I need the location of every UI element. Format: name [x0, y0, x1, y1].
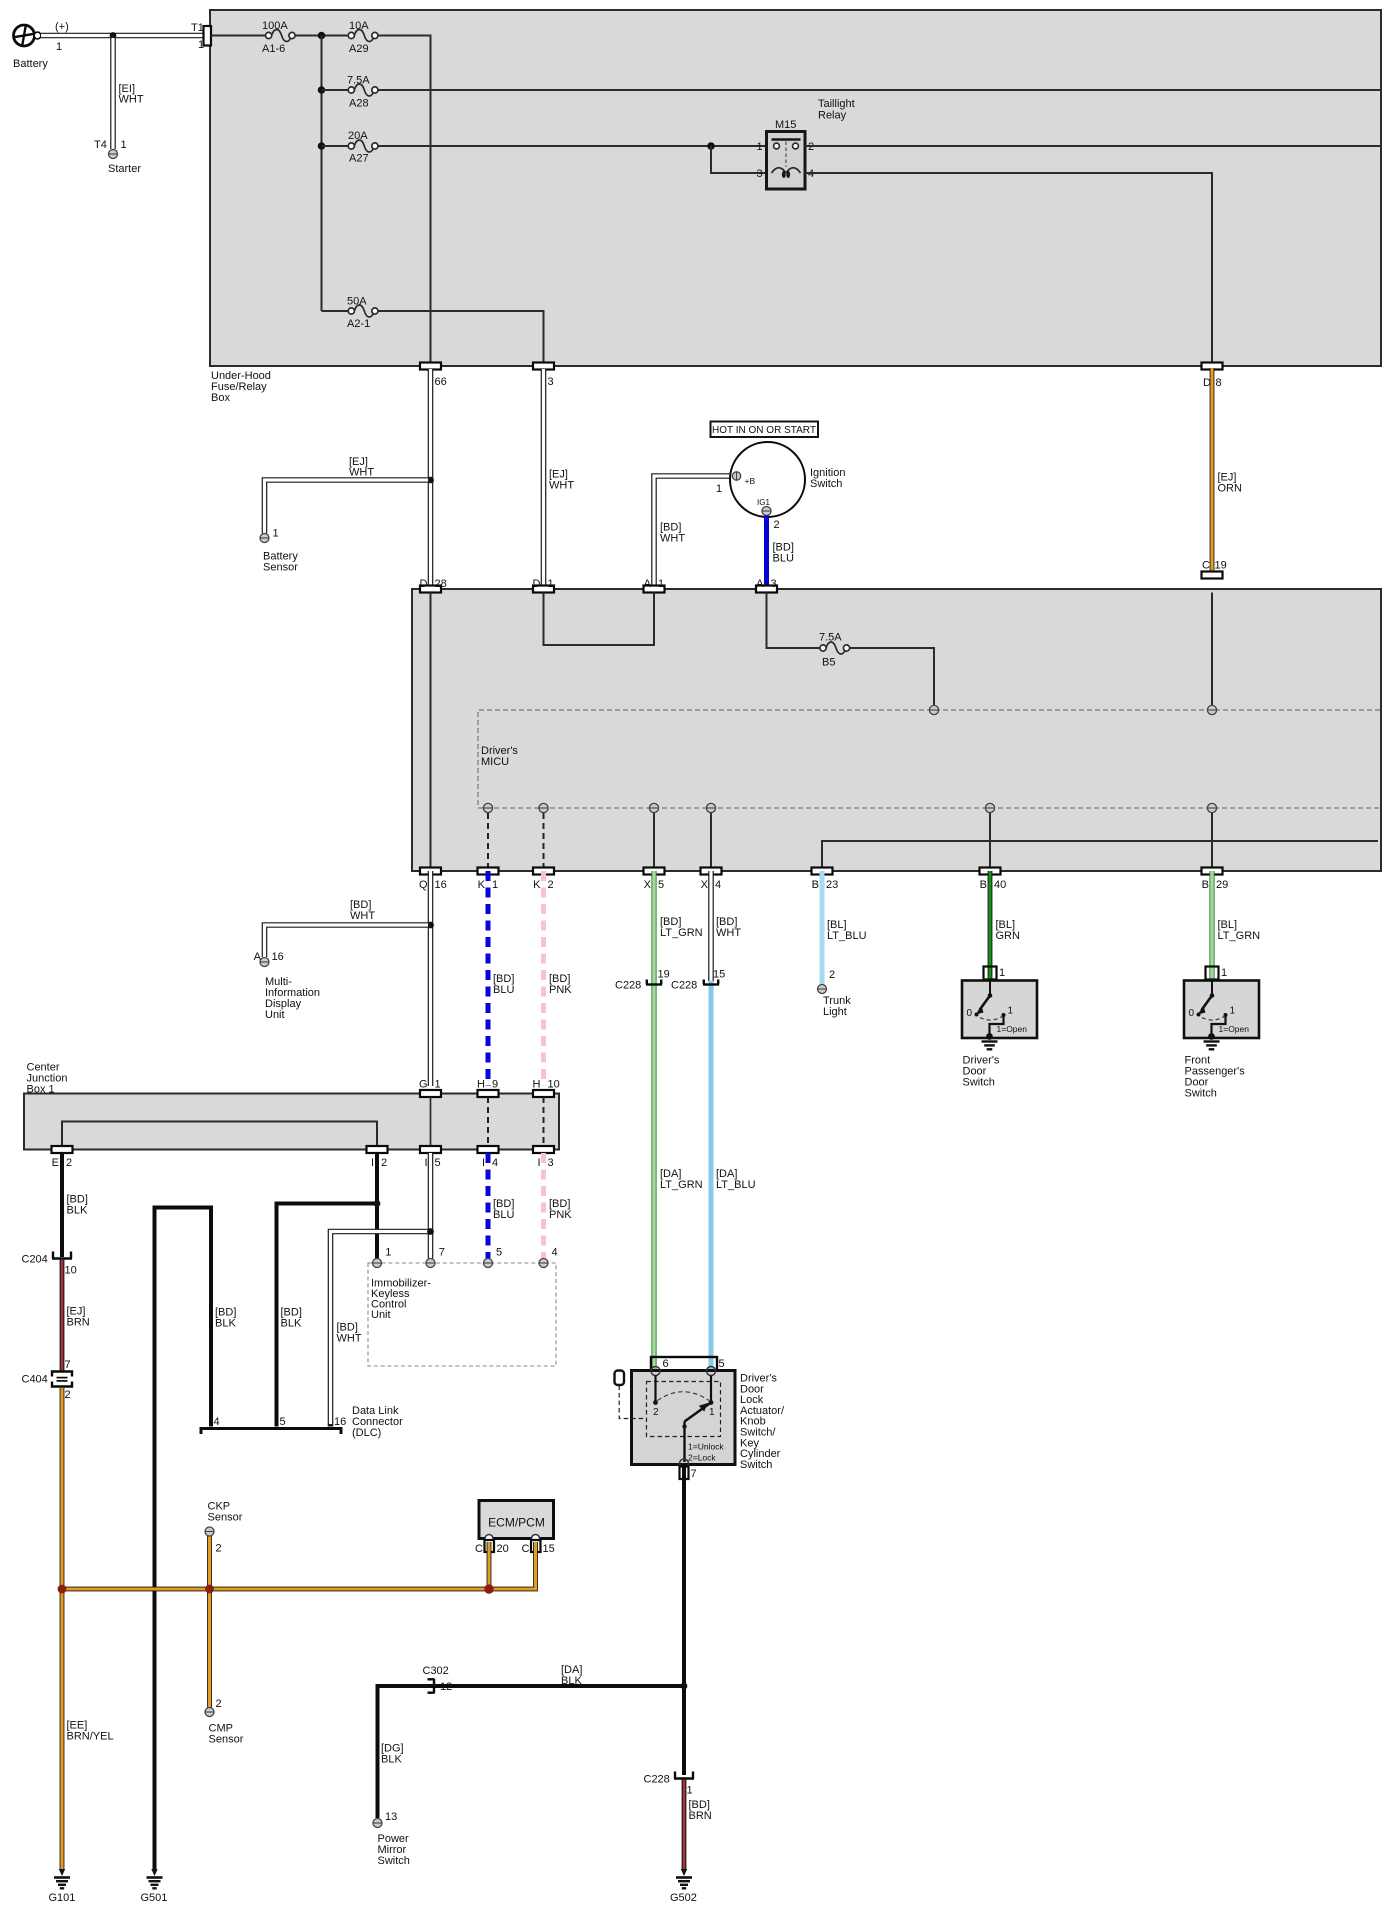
svg-text:H: H	[533, 1079, 541, 1091]
wire terminal to B-29	[1211, 813, 1213, 868]
svg-text:4: 4	[715, 879, 721, 891]
door lock actuator label	[740, 1373, 785, 1471]
connector K-1	[478, 868, 499, 892]
fuse 20A A27	[322, 130, 379, 165]
svg-text:3: 3	[771, 578, 777, 590]
fuse 50A A2-1	[322, 296, 379, 331]
MICU inner dashed boundary	[478, 710, 1380, 808]
wire B-40 to driver's door switch [BL] GRN	[990, 871, 1020, 981]
svg-text:7: 7	[65, 1359, 71, 1371]
actuator bottom pin I-7	[680, 1459, 697, 1480]
key cylinder icon	[615, 1371, 647, 1419]
svg-text:5: 5	[496, 1247, 502, 1259]
connector H-10	[533, 1079, 560, 1098]
svg-text:BLU: BLU	[493, 984, 514, 996]
wire C-19 into MICU	[1211, 593, 1213, 706]
node orange junction at G101 wire	[58, 1585, 67, 1594]
wire power mirror switch to junction [DG] BLK	[378, 1664, 685, 1818]
svg-text:A29: A29	[349, 43, 369, 55]
svg-text:I: I	[537, 1157, 540, 1169]
svg-text:4: 4	[552, 1247, 558, 1259]
wire X-5 to door lock actuator [BD]/[DA] LT_GRN	[654, 871, 703, 1364]
svg-text:C228: C228	[615, 980, 641, 992]
front passenger's door switch	[1184, 981, 1259, 1040]
wire T1 to fuses	[211, 35, 266, 37]
svg-text:23: 23	[826, 879, 838, 891]
svg-text:WHT: WHT	[549, 480, 574, 492]
svg-text:Battery: Battery	[13, 58, 48, 70]
svg-text:1: 1	[687, 1785, 693, 1797]
svg-text:16: 16	[435, 879, 447, 891]
svg-text:Unit: Unit	[371, 1309, 391, 1321]
svg-text:A2-1: A2-1	[347, 318, 370, 330]
fuse 7.5A A28	[322, 75, 379, 110]
svg-text:Q: Q	[419, 879, 428, 891]
svg-text:5: 5	[719, 1358, 725, 1370]
svg-text:D: D	[533, 578, 541, 590]
svg-text:C: C	[1202, 560, 1210, 572]
svg-text:WHT: WHT	[350, 910, 375, 922]
MICU terminal X-5	[649, 803, 658, 812]
svg-text:C204: C204	[22, 1254, 48, 1266]
wire actuator to C228-1 [DA] BLK	[681, 1464, 688, 1775]
wire Q-16 to G-1 [BD] WHT	[350, 871, 431, 1086]
svg-text:T4: T4	[94, 139, 107, 151]
svg-text:LT_BLU: LT_BLU	[716, 1179, 756, 1191]
connector C404 pins 7/2	[22, 1359, 73, 1401]
wire 3 to D-1 [EJ] WHT	[544, 369, 575, 586]
svg-text:BLK: BLK	[561, 1675, 582, 1687]
wire 20A to relay pin 1	[378, 145, 766, 147]
svg-text:I: I	[482, 1157, 485, 1169]
svg-text:LT_GRN: LT_GRN	[1218, 930, 1261, 942]
connector 66	[420, 363, 447, 389]
svg-text:H: H	[477, 1079, 485, 1091]
ground G101	[49, 1878, 76, 1905]
svg-text:1: 1	[56, 41, 62, 53]
wire E-2 to I-2 inside CJB	[62, 1122, 377, 1147]
svg-text:7: 7	[439, 1247, 445, 1259]
MICU terminal K-1	[483, 803, 492, 812]
wire I-2 to immobilizer pin 1 and DLC-5	[277, 1153, 381, 1427]
svg-text:A: A	[756, 578, 764, 590]
starter terminal T4-1	[94, 139, 141, 175]
wire junction to multi-information display	[265, 925, 431, 957]
svg-text:I: I	[371, 1157, 374, 1169]
ECM/PCM	[479, 1501, 554, 1543]
wire 50A to connector 3	[378, 311, 544, 366]
connector T1-1	[191, 22, 211, 51]
svg-text:19: 19	[658, 969, 670, 981]
wire D-28 to Q-16 inside MICU	[430, 593, 432, 868]
svg-text:1: 1	[757, 141, 763, 153]
driver's door switch ground	[963, 1042, 1000, 1089]
wire G-1 to I-5 inside CJB	[430, 1097, 432, 1146]
svg-text:7.5A: 7.5A	[819, 632, 842, 644]
connector H-9	[477, 1079, 498, 1098]
svg-text:B: B	[1202, 879, 1209, 891]
wire terminal to X-5	[653, 813, 655, 868]
node 7.5A junction	[318, 86, 326, 94]
svg-text:T1: T1	[191, 22, 204, 34]
svg-text:5: 5	[280, 1416, 286, 1428]
fuse 7.5A B5	[819, 632, 850, 669]
wire C204 to C404 [EJ] BRN	[62, 1260, 90, 1372]
svg-text:2: 2	[653, 1407, 659, 1418]
svg-text:G502: G502	[670, 1892, 697, 1904]
svg-text:Switch: Switch	[378, 1855, 410, 1867]
wire I-4 to immobilizer pin 5 [BD] BLU dashed	[488, 1153, 514, 1259]
svg-text:1: 1	[385, 1247, 391, 1259]
svg-text:1: 1	[1221, 967, 1227, 979]
svg-text:C: C	[522, 1543, 530, 1555]
wire DLC-4 to G501 (thick black U)	[155, 1208, 212, 1870]
svg-text:1: 1	[709, 1407, 715, 1418]
svg-text:A1-6: A1-6	[262, 43, 285, 55]
connector Q-16	[419, 868, 447, 892]
svg-text:1: 1	[548, 578, 554, 590]
connector 3	[533, 363, 554, 389]
connector X-5	[644, 868, 665, 892]
svg-text:X: X	[701, 879, 709, 891]
svg-text:3: 3	[757, 168, 763, 180]
passenger door switch connector 1	[1206, 967, 1228, 980]
ground G502	[670, 1878, 697, 1905]
connector K-2	[533, 868, 554, 892]
driver's door switch	[962, 981, 1037, 1040]
wire E-2 to C204 [BD] BLK	[62, 1153, 88, 1257]
wire terminal to K-2 (dashed)	[543, 813, 545, 868]
connector C204-10	[22, 1252, 77, 1277]
wire bus vertical	[321, 36, 323, 312]
svg-text:BLK: BLK	[67, 1205, 88, 1217]
connector I-5	[420, 1146, 441, 1169]
svg-text:ORN: ORN	[1218, 483, 1243, 495]
svg-text:WHT: WHT	[349, 467, 374, 479]
connector C-19	[1202, 560, 1227, 579]
Center Junction Box 1	[24, 1062, 559, 1150]
power mirror switch terminal 13	[373, 1811, 410, 1867]
svg-text:LT_BLU: LT_BLU	[827, 930, 867, 942]
svg-text:3: 3	[548, 1157, 554, 1169]
MICU terminal X-4	[706, 803, 715, 812]
svg-text:8: 8	[1216, 377, 1222, 389]
svg-text:1: 1	[121, 139, 127, 151]
svg-text:9: 9	[492, 1079, 498, 1091]
svg-text:Sensor: Sensor	[209, 1734, 244, 1746]
svg-text:BLK: BLK	[281, 1318, 302, 1330]
fuse 100A A1-6	[262, 20, 295, 55]
CKP sensor terminal 2	[205, 1501, 243, 1555]
wire A-3 to fuse B5	[767, 593, 821, 649]
svg-text:20A: 20A	[348, 130, 368, 142]
svg-text:GRN: GRN	[996, 930, 1021, 942]
svg-text:28: 28	[435, 578, 447, 590]
node MID branch junction	[427, 922, 434, 929]
wire X-4 to C228 [BD] WHT	[711, 871, 741, 981]
svg-text:C228: C228	[644, 1774, 670, 1786]
svg-text:LT_GRN: LT_GRN	[660, 1179, 703, 1191]
svg-text:Unit: Unit	[265, 1009, 285, 1021]
connector I-3	[533, 1146, 554, 1169]
connector G-1	[419, 1079, 441, 1098]
svg-text:1=Unlock: 1=Unlock	[688, 1442, 724, 1452]
connector D-1	[533, 578, 554, 593]
svg-text:0: 0	[967, 1008, 973, 1019]
wire relay pin 4 to D-8	[805, 173, 1212, 366]
wire H-10 to I-3 inside CJB (dashed)	[543, 1097, 545, 1146]
wire relay pin 2 to right edge	[805, 145, 1380, 147]
connector C228-19	[615, 969, 670, 992]
svg-text:13: 13	[385, 1811, 397, 1823]
connector A-1	[644, 578, 665, 593]
wire junction to battery sensor	[265, 480, 431, 534]
taillight relay M15	[757, 98, 855, 189]
connector E-2	[52, 1146, 73, 1169]
svg-text:Light: Light	[823, 1006, 847, 1018]
svg-text:I: I	[424, 1157, 427, 1169]
svg-text:1: 1	[1230, 1006, 1236, 1017]
svg-text:2: 2	[774, 519, 780, 531]
svg-text:MICU: MICU	[481, 756, 509, 768]
svg-text:BLK: BLK	[381, 1754, 402, 1766]
wire junction to relay pin 3	[711, 146, 766, 173]
svg-text:Sensor: Sensor	[263, 562, 298, 574]
wire ignition +B to A-1 [BD] WHT	[654, 476, 733, 586]
svg-text:40: 40	[994, 879, 1006, 891]
svg-text:7.5A: 7.5A	[347, 75, 370, 87]
svg-text:16: 16	[334, 1416, 346, 1428]
svg-text:20: 20	[497, 1543, 509, 1555]
driver's door lock actuator / knob switch / key cylinder switch	[632, 1367, 736, 1465]
Under-Hood Fuse/Relay Box	[210, 10, 1381, 404]
svg-text:C302: C302	[423, 1665, 449, 1677]
node battery sensor junction	[427, 477, 434, 484]
connector C228-1	[644, 1772, 695, 1797]
wire B-23 riser	[822, 841, 1378, 868]
CMP sensor terminal 2	[205, 1698, 244, 1746]
HOT IN ON OR START banner	[711, 422, 819, 438]
svg-text:B: B	[812, 879, 819, 891]
label [BD] BLK (DLC 5 wire)	[281, 1307, 302, 1330]
battery	[13, 21, 69, 70]
svg-text:50A: 50A	[347, 296, 367, 308]
wire K-1 to H-9 [BD] BLU dashed	[488, 871, 514, 1086]
svg-text:2: 2	[216, 1698, 222, 1710]
wire K-2 to H-10 [BD] PNK dashed	[544, 871, 573, 1086]
svg-text:WHT: WHT	[716, 927, 741, 939]
svg-text:1: 1	[658, 578, 664, 590]
svg-text:2: 2	[381, 1157, 387, 1169]
svg-text:Box: Box	[211, 392, 230, 404]
wire terminal to X-4	[710, 813, 712, 868]
svg-text:Relay: Relay	[818, 110, 847, 122]
fuse 10A A29	[348, 20, 378, 55]
svg-text:PNK: PNK	[549, 1209, 572, 1221]
svg-text:WHT: WHT	[337, 1333, 362, 1345]
connector B-40	[980, 868, 1007, 892]
MID terminal A-16	[254, 951, 320, 1021]
wire B-29 to passenger door switch [BL] LT_GRN	[1212, 871, 1260, 981]
svg-text:X: X	[644, 879, 652, 891]
svg-text:C228: C228	[671, 980, 697, 992]
svg-text:15: 15	[543, 1543, 555, 1555]
svg-text:(+): (+)	[55, 21, 69, 33]
MICU terminal K-2	[539, 803, 548, 812]
wire D-1 to A-1 inside MICU	[544, 593, 655, 646]
passenger door switch ground	[1185, 1042, 1246, 1100]
svg-text:4: 4	[214, 1416, 220, 1428]
MICU terminal (B5 feed)	[929, 705, 938, 714]
connector B-29	[1202, 868, 1229, 892]
svg-text:M15: M15	[775, 119, 796, 131]
svg-text:C404: C404	[22, 1374, 48, 1386]
driver's door lock actuator connector band	[651, 1356, 725, 1371]
svg-text:1: 1	[492, 879, 498, 891]
connector C228-15	[671, 969, 725, 992]
svg-text:2: 2	[829, 969, 835, 981]
svg-text:1=Open: 1=Open	[997, 1024, 1028, 1034]
svg-text:BLK: BLK	[215, 1318, 236, 1330]
svg-text:Sensor: Sensor	[208, 1512, 243, 1524]
wire battery to T1 (white double)	[41, 33, 206, 39]
svg-text:29: 29	[1216, 879, 1228, 891]
svg-text:3: 3	[548, 376, 554, 388]
ignition switch	[716, 442, 845, 531]
svg-text:2: 2	[65, 1389, 71, 1401]
svg-text:1: 1	[999, 967, 1005, 979]
svg-text:B: B	[980, 879, 987, 891]
wire C228 to door lock actuator [DA] LT_BLU	[711, 981, 756, 1364]
svg-text:ECM/PCM: ECM/PCM	[488, 1516, 545, 1530]
svg-text:66: 66	[435, 376, 447, 388]
svg-text:Starter: Starter	[108, 163, 141, 175]
svg-text:BRN/YEL: BRN/YEL	[67, 1731, 114, 1743]
wire 10A to right then down to 66	[378, 36, 431, 367]
svg-text:10: 10	[548, 1079, 560, 1091]
node orange junction at ECM C-20	[484, 1584, 494, 1594]
wire junction to starter [EI] WHT	[113, 36, 144, 150]
connector A-3	[756, 578, 777, 593]
immobilizer-keyless control unit	[368, 1247, 558, 1367]
svg-text:10: 10	[65, 1265, 77, 1277]
svg-text:A27: A27	[349, 153, 369, 165]
svg-text:E: E	[52, 1157, 59, 1169]
svg-text:6: 6	[663, 1358, 669, 1370]
wire I-5 to immobilizer pin 7 and DLC-16 [BD] WHT	[331, 1153, 434, 1427]
svg-text:2: 2	[216, 1543, 222, 1555]
svg-text:(DLC): (DLC)	[352, 1427, 381, 1439]
svg-text:Switch: Switch	[810, 478, 842, 490]
connector D-28	[420, 578, 447, 593]
svg-text:1: 1	[1008, 1006, 1014, 1017]
node relay branch junction	[707, 142, 715, 150]
svg-text:Switch: Switch	[1185, 1088, 1217, 1100]
wire terminal to B-40	[989, 813, 991, 868]
svg-text:G101: G101	[49, 1892, 76, 1904]
svg-text:100A: 100A	[262, 20, 288, 32]
svg-text:+B: +B	[745, 476, 756, 486]
svg-text:BLU: BLU	[493, 1209, 514, 1221]
svg-text:IG1: IG1	[757, 498, 770, 507]
connector I-2	[367, 1146, 388, 1169]
svg-text:5: 5	[658, 879, 664, 891]
svg-text:16: 16	[272, 951, 284, 963]
svg-text:19: 19	[1215, 560, 1227, 572]
svg-text:0: 0	[1189, 1008, 1195, 1019]
svg-text:15: 15	[713, 969, 725, 981]
MICU terminal (C-19 feed)	[1207, 705, 1216, 714]
svg-text:1=Open: 1=Open	[1219, 1024, 1250, 1034]
svg-text:2: 2	[548, 879, 554, 891]
node battery junction	[110, 32, 117, 39]
svg-text:1: 1	[198, 39, 204, 51]
svg-text:HOT IN ON OR START: HOT IN ON OR START	[712, 425, 816, 436]
wire B5 to MICU terminal	[850, 648, 935, 706]
connector D-8	[1202, 363, 1223, 390]
wire C228-1 to G502 [BD] BRN	[681, 1780, 712, 1877]
svg-text:WHT: WHT	[119, 94, 144, 106]
wire IG1 to A-3 [BD] BLU	[767, 516, 794, 587]
svg-text:5: 5	[435, 1157, 441, 1169]
svg-text:Switch: Switch	[740, 1459, 772, 1471]
svg-text:2=Lock: 2=Lock	[688, 1453, 716, 1463]
svg-text:BRN: BRN	[67, 1317, 90, 1329]
svg-text:D: D	[420, 578, 428, 590]
svg-text:2: 2	[66, 1157, 72, 1169]
svg-text:Switch: Switch	[963, 1077, 995, 1089]
svg-text:WHT: WHT	[660, 533, 685, 545]
svg-text:7: 7	[691, 1468, 697, 1480]
driver's door switch connector 1	[984, 967, 1006, 980]
ECM/PCM connectors C-20 C-15	[475, 1540, 555, 1555]
wire B-23 to trunk light [BL] LT_BLU	[822, 871, 867, 985]
svg-text:12: 12	[440, 1681, 452, 1693]
svg-text:C: C	[475, 1543, 483, 1555]
wire C404 to G101 [EE] BRN/YEL	[59, 1388, 114, 1876]
svg-text:1: 1	[716, 483, 722, 495]
connector B-23	[812, 868, 839, 892]
node main bus junction	[318, 32, 326, 40]
svg-text:10A: 10A	[349, 20, 369, 32]
trunk light terminal 2	[818, 969, 852, 1018]
wire 66 to D-28 [EJ] WHT	[349, 369, 431, 586]
connector I-4	[478, 1146, 499, 1169]
svg-text:K: K	[533, 879, 541, 891]
ground G501	[141, 1869, 168, 1904]
MICU terminal B-40	[985, 803, 994, 812]
svg-text:1: 1	[273, 528, 279, 540]
node orange junction at CKP wire	[205, 1585, 214, 1594]
svg-text:LT_GRN: LT_GRN	[660, 927, 703, 939]
connector C302-12	[423, 1665, 453, 1694]
wire H-9 to I-4 inside CJB (dashed)	[487, 1097, 489, 1146]
label [BD] BLK (DLC 4 wire)	[215, 1307, 236, 1330]
data link connector (DLC)	[201, 1405, 403, 1439]
svg-text:4: 4	[492, 1157, 498, 1169]
svg-text:G501: G501	[141, 1892, 168, 1904]
wire fuse to junction	[295, 35, 348, 37]
svg-text:B5: B5	[822, 657, 835, 669]
wire 7.5A row to right edge	[378, 89, 1380, 91]
Driver's MICU box	[412, 589, 1381, 871]
wire I-3 to immobilizer pin 4 [BD] PNK dashed	[544, 1153, 573, 1259]
connector X-4	[701, 868, 722, 892]
svg-text:Taillight: Taillight	[818, 98, 855, 110]
svg-text:K: K	[478, 879, 486, 891]
svg-text:BLU: BLU	[773, 553, 794, 565]
wire terminal to K-1 (dashed)	[487, 813, 489, 868]
